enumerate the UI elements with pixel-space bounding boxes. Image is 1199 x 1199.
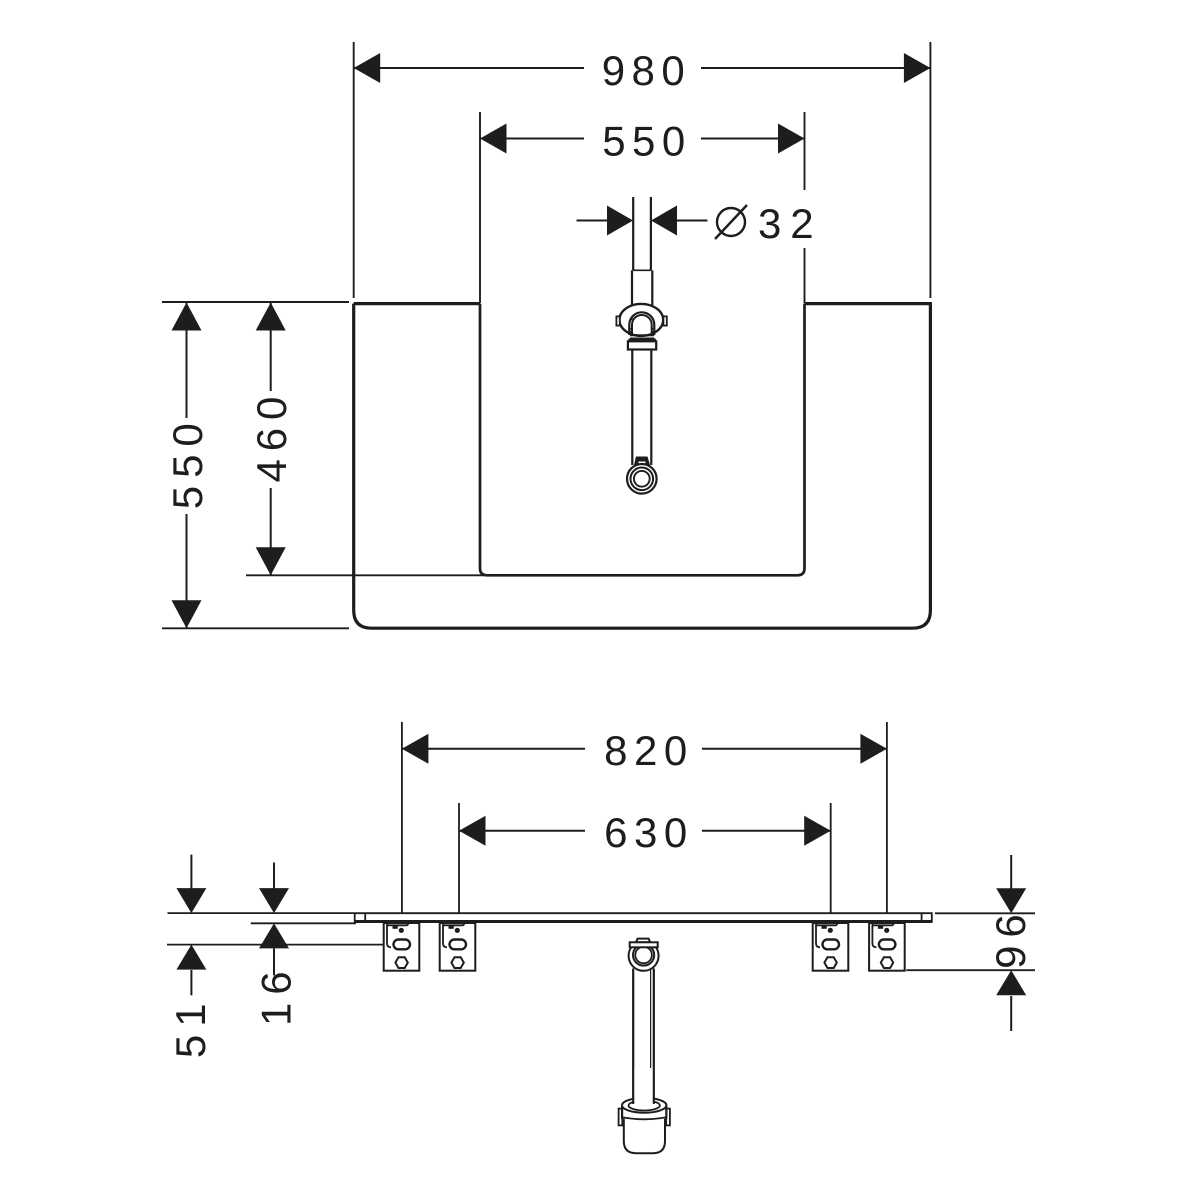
svg-text:820: 820 bbox=[604, 727, 694, 774]
svg-text:980: 980 bbox=[602, 47, 692, 94]
svg-text:460: 460 bbox=[248, 389, 295, 483]
svg-text:550: 550 bbox=[164, 415, 211, 509]
svg-text:630: 630 bbox=[604, 809, 694, 856]
svg-text:51: 51 bbox=[167, 996, 214, 1059]
svg-text:550: 550 bbox=[602, 118, 692, 165]
svg-text:96: 96 bbox=[987, 906, 1034, 969]
svg-text:16: 16 bbox=[252, 963, 299, 1026]
svg-text:32: 32 bbox=[758, 200, 823, 247]
